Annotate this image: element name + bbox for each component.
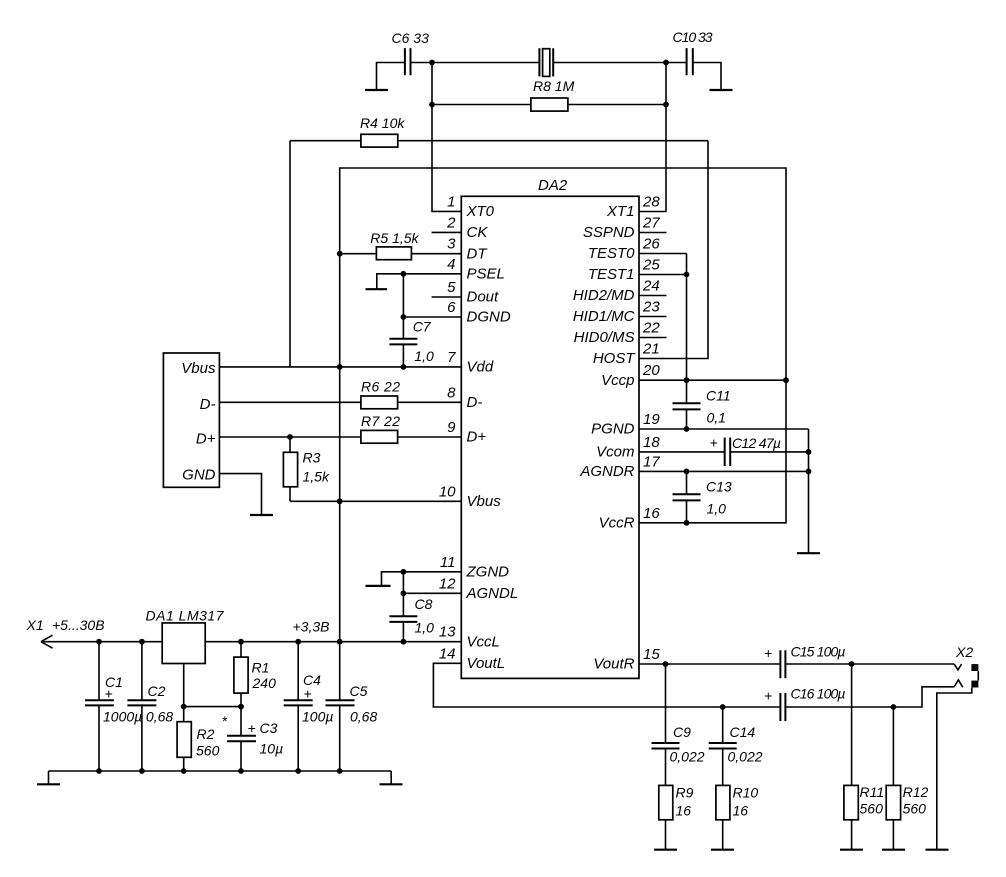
svg-text:5: 5 bbox=[447, 279, 456, 296]
svg-text:DA2: DA2 bbox=[538, 177, 568, 194]
svg-text:240: 240 bbox=[252, 675, 277, 691]
svg-text:X2: X2 bbox=[955, 644, 973, 660]
svg-text:SSPND: SSPND bbox=[583, 224, 635, 241]
svg-text:17: 17 bbox=[643, 453, 660, 470]
svg-text:D-: D- bbox=[200, 396, 216, 413]
svg-text:Vbus: Vbus bbox=[181, 360, 216, 377]
svg-text:0,68: 0,68 bbox=[146, 709, 173, 725]
svg-text:X1: X1 bbox=[26, 617, 44, 633]
svg-text:C16 100µ: C16 100µ bbox=[791, 686, 846, 702]
svg-text:PSEL: PSEL bbox=[467, 265, 505, 282]
svg-text:+5...30B: +5...30B bbox=[52, 617, 105, 633]
svg-text:13: 13 bbox=[439, 624, 456, 641]
svg-text:GND: GND bbox=[182, 467, 216, 484]
svg-text:+: + bbox=[764, 645, 772, 661]
svg-text:1: 1 bbox=[447, 193, 455, 210]
svg-text:1000µ: 1000µ bbox=[103, 709, 142, 725]
svg-text:HOST: HOST bbox=[593, 350, 637, 367]
svg-text:R9: R9 bbox=[676, 785, 694, 801]
svg-text:C12 47µ: C12 47µ bbox=[732, 435, 781, 451]
svg-text:+: + bbox=[105, 686, 113, 702]
svg-text:+: + bbox=[710, 435, 718, 451]
svg-text:D+: D+ bbox=[467, 429, 487, 446]
svg-text:D+: D+ bbox=[196, 430, 216, 447]
svg-text:6: 6 bbox=[447, 299, 456, 316]
svg-text:0,68: 0,68 bbox=[350, 709, 377, 725]
svg-text:R12: R12 bbox=[903, 784, 929, 800]
svg-text:VccL: VccL bbox=[467, 633, 500, 650]
svg-text:DGND: DGND bbox=[467, 309, 511, 326]
svg-text:0,1: 0,1 bbox=[707, 410, 726, 426]
svg-text:12: 12 bbox=[439, 575, 456, 592]
svg-text:1,0: 1,0 bbox=[415, 620, 435, 636]
svg-text:VoutL: VoutL bbox=[467, 655, 506, 672]
svg-text:R4 10k: R4 10k bbox=[360, 115, 405, 131]
svg-text:C8: C8 bbox=[415, 596, 433, 612]
svg-text:8: 8 bbox=[447, 384, 456, 401]
svg-text:28: 28 bbox=[642, 194, 660, 211]
svg-text:C15 100µ: C15 100µ bbox=[791, 644, 846, 660]
svg-text:Dout: Dout bbox=[467, 289, 500, 306]
svg-text:16: 16 bbox=[676, 803, 692, 819]
svg-text:TEST0: TEST0 bbox=[588, 245, 635, 262]
svg-text:R8 1M: R8 1M bbox=[533, 78, 575, 94]
svg-text:560: 560 bbox=[903, 801, 927, 817]
svg-text:*: * bbox=[222, 713, 228, 729]
svg-text:1,5k: 1,5k bbox=[303, 469, 330, 485]
svg-text:+: + bbox=[304, 686, 312, 702]
svg-text:11: 11 bbox=[440, 554, 456, 571]
svg-text:C9: C9 bbox=[673, 724, 691, 740]
svg-text:15: 15 bbox=[643, 646, 660, 663]
svg-text:AGNDL: AGNDL bbox=[466, 585, 519, 602]
svg-text:27: 27 bbox=[642, 215, 660, 232]
svg-text:C13: C13 bbox=[706, 479, 732, 495]
svg-text:560: 560 bbox=[860, 801, 884, 817]
svg-text:Vdd: Vdd bbox=[467, 359, 494, 376]
svg-text:7: 7 bbox=[447, 349, 456, 366]
svg-text:19: 19 bbox=[643, 411, 660, 428]
svg-text:CK: CK bbox=[467, 224, 489, 241]
svg-text:+: + bbox=[764, 688, 772, 704]
svg-text:C2: C2 bbox=[148, 683, 166, 699]
svg-text:23: 23 bbox=[642, 299, 660, 316]
svg-text:25: 25 bbox=[642, 257, 660, 274]
svg-text:1,0: 1,0 bbox=[707, 501, 727, 517]
svg-text:C10 33: C10 33 bbox=[673, 29, 713, 45]
svg-text:C11: C11 bbox=[706, 388, 731, 404]
svg-text:0,022: 0,022 bbox=[728, 749, 763, 765]
svg-text:PGND: PGND bbox=[591, 421, 635, 438]
svg-text:560: 560 bbox=[196, 743, 220, 759]
svg-text:18: 18 bbox=[643, 434, 660, 451]
svg-text:10: 10 bbox=[439, 483, 456, 500]
svg-text:HID0/MS: HID0/MS bbox=[574, 329, 635, 346]
svg-text:4: 4 bbox=[447, 256, 455, 273]
svg-text:XT1: XT1 bbox=[606, 203, 635, 220]
svg-text:DA1 LM317: DA1 LM317 bbox=[146, 608, 225, 624]
svg-text:R10: R10 bbox=[733, 785, 759, 801]
svg-text:26: 26 bbox=[642, 236, 660, 253]
svg-text:9: 9 bbox=[447, 419, 456, 436]
svg-text:21: 21 bbox=[642, 341, 660, 358]
svg-text:R1: R1 bbox=[252, 660, 270, 676]
svg-text:100µ: 100µ bbox=[302, 709, 333, 725]
svg-text:C6 33: C6 33 bbox=[392, 30, 430, 46]
svg-text:C3: C3 bbox=[260, 720, 278, 736]
svg-text:+3,3B: +3,3B bbox=[293, 619, 330, 635]
svg-text:C14: C14 bbox=[730, 724, 756, 740]
svg-text:AGNDR: AGNDR bbox=[579, 463, 634, 480]
svg-text:10µ: 10µ bbox=[260, 741, 284, 757]
svg-text:22: 22 bbox=[642, 320, 660, 337]
svg-text:TEST1: TEST1 bbox=[588, 266, 635, 283]
svg-text:Vcom: Vcom bbox=[596, 444, 634, 461]
svg-text:14: 14 bbox=[439, 645, 456, 662]
svg-text:DT: DT bbox=[467, 245, 489, 262]
svg-text:R2: R2 bbox=[197, 726, 215, 742]
svg-text:R5 1,5k: R5 1,5k bbox=[370, 230, 419, 246]
svg-text:C7: C7 bbox=[413, 319, 432, 335]
svg-text:16: 16 bbox=[643, 505, 660, 522]
svg-text:1,0: 1,0 bbox=[414, 348, 434, 364]
svg-text:VoutR: VoutR bbox=[593, 656, 634, 673]
svg-text:HID1/MC: HID1/MC bbox=[573, 308, 635, 325]
svg-text:HID2/MD: HID2/MD bbox=[573, 287, 635, 304]
svg-text:0,022: 0,022 bbox=[670, 749, 705, 765]
svg-text:24: 24 bbox=[642, 278, 660, 295]
svg-text:R3: R3 bbox=[303, 450, 321, 466]
svg-text:XT0: XT0 bbox=[466, 203, 495, 220]
svg-text:R11: R11 bbox=[860, 784, 885, 800]
svg-text:C5: C5 bbox=[350, 683, 368, 699]
svg-text:2: 2 bbox=[446, 214, 456, 231]
svg-text:Vccp: Vccp bbox=[601, 372, 634, 389]
svg-text:ZGND: ZGND bbox=[466, 563, 510, 580]
svg-text:3: 3 bbox=[447, 236, 456, 253]
svg-text:20: 20 bbox=[642, 362, 660, 379]
svg-text:R7 22: R7 22 bbox=[361, 413, 400, 429]
svg-text:VccR: VccR bbox=[599, 514, 635, 531]
svg-text:16: 16 bbox=[733, 803, 749, 819]
svg-text:Vbus: Vbus bbox=[467, 493, 502, 510]
svg-text:+: + bbox=[248, 720, 256, 736]
svg-text:D-: D- bbox=[467, 394, 483, 411]
svg-text:R6 22: R6 22 bbox=[361, 379, 400, 395]
